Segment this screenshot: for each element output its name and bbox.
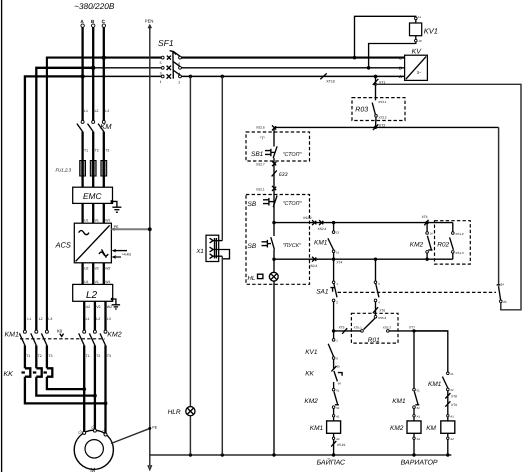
svg-text:U1: U1 — [84, 280, 89, 284]
svg-text:W2: W2 — [105, 267, 110, 271]
svg-text:SB1: SB1 — [251, 151, 264, 158]
wire bus3 middle segment — [83, 75, 162, 77]
svg-text:KM1: KM1 — [392, 398, 406, 405]
svg-text:HLR: HLR — [168, 409, 181, 416]
wire KM1 to KK (3 wires) — [24, 345, 26, 368]
junction left column / R01 line — [332, 329, 335, 332]
connection mark XT1 — [373, 79, 379, 85]
svg-text:XT3: XT3 — [422, 215, 428, 219]
svg-text:L2: L2 — [96, 317, 100, 321]
junction phase B / bus2 — [91, 66, 95, 70]
svg-text:XS5.3: XS5.3 — [383, 325, 392, 329]
svg-text:PE: PE — [152, 425, 157, 429]
svg-text:R01: R01 — [368, 337, 380, 344]
svg-text:KM1: KM1 — [5, 332, 20, 339]
thermal relay KK heater 2 — [33, 368, 42, 376]
wire phase B vertical — [92, 27, 94, 120]
svg-text:ACS: ACS — [55, 241, 71, 250]
svg-text:11: 11 — [418, 15, 421, 19]
svg-text:XS2.6: XS2.6 — [256, 126, 265, 130]
svg-text:U1: U1 — [84, 218, 89, 222]
svg-text:XS3.1: XS3.1 — [378, 100, 387, 104]
junction bus3 / X1 column — [221, 75, 225, 79]
wire bus3 right segment to KV — [181, 75, 404, 77]
wire R03 output down to control line — [375, 117, 378, 127]
switch SA1 pole 3 at right edge — [497, 282, 507, 304]
connection marks XS2.2 XS2.4 on rail1 — [303, 216, 327, 231]
wire HLR to bus — [189, 416, 191, 455]
svg-text:КВ: КВ — [57, 329, 62, 334]
svg-text:KV: KV — [412, 48, 423, 55]
auxiliary contact KM1 (NC) interlock — [392, 388, 420, 414]
junction bus2 / KV1 wire — [367, 66, 371, 70]
contactor KM2 pole 1 — [79, 330, 86, 345]
svg-text:KK: KK — [305, 370, 314, 377]
svg-text:M: M — [90, 467, 95, 472]
svg-text:W1: W1 — [105, 218, 110, 222]
junction bus / X1 branch — [221, 453, 224, 456]
svg-text:"СТОП": "СТОП" — [283, 201, 303, 207]
svg-text:XS3.2: XS3.2 — [378, 116, 387, 120]
svg-text:T2: T2 — [95, 149, 99, 153]
svg-text:62: 62 — [336, 406, 340, 410]
wire KK output 1 bend to motor line 3 — [25, 377, 106, 404]
svg-text:KM2: KM2 — [410, 241, 424, 248]
svg-text:SA1: SA1 — [316, 289, 329, 296]
pushbutton SB PUSK (NO) — [248, 237, 302, 250]
svg-text:T1: T1 — [86, 354, 90, 358]
output filter L2 box — [73, 284, 113, 301]
breaker SF1 common trip bar — [170, 51, 176, 79]
svg-text:XS2.1: XS2.1 — [256, 187, 265, 191]
svg-text:10: 10 — [418, 39, 422, 43]
svg-text:3~: 3~ — [417, 70, 422, 75]
contactor KM2 pole 3 — [100, 330, 107, 345]
wire rail1 start circuit y222.6 — [274, 222, 453, 224]
junction bus / HLR branch — [189, 453, 192, 456]
svg-text:T3: T3 — [107, 354, 111, 358]
EMC filter box U1 — [73, 187, 113, 203]
svg-text:~380/220В: ~380/220В — [74, 1, 115, 11]
junction bus / KM1 coil — [332, 453, 335, 456]
wire branch from bus3 down to R03 — [375, 76, 377, 100]
svg-text:633: 633 — [279, 172, 288, 178]
svg-text:KK: KK — [4, 371, 14, 378]
svg-text:22: 22 — [450, 388, 454, 392]
svg-text:EMC: EMC — [83, 191, 102, 201]
connection mark XT5 — [339, 326, 348, 334]
junction rail1 / KM2 aux — [425, 221, 428, 224]
wire KM coil branch from XT7 node — [414, 331, 448, 372]
svg-text:R03: R03 — [355, 107, 368, 114]
junction bus / KM coil — [446, 453, 449, 456]
wire start button to lamp node — [273, 250, 275, 273]
junction rail2 / SA1 pole1 — [332, 258, 335, 261]
svg-text:SB: SB — [248, 201, 257, 208]
wire bus3 (phase A) left segment with bend down — [25, 76, 83, 331]
connection mark XT10 on bus3 — [320, 73, 326, 79]
wire KM to fuses (3 phases) — [81, 132, 83, 188]
pin A2 of KM1 coil — [333, 433, 335, 437]
svg-text:24: 24 — [501, 282, 505, 286]
wire X1 column upper — [221, 76, 223, 240]
connection mark XT3 on rail1 right — [422, 215, 429, 226]
wire EMC to ACS (3 phases) — [81, 203, 83, 223]
fuse FU3 — [101, 161, 107, 177]
svg-text:KM: KM — [426, 425, 436, 432]
junction to right loop — [374, 83, 377, 86]
pushbutton station SB1 dashed box — [246, 132, 310, 161]
svg-text:KV1: KV1 — [305, 349, 318, 356]
wire bus2 (phase B) left segment with bend down — [36, 68, 93, 332]
junction R03 / control line — [374, 126, 377, 129]
contactor coil KM — [426, 417, 455, 433]
svg-text:XS2.4: XS2.4 — [318, 227, 327, 231]
wire number 65 mark — [331, 364, 340, 371]
changeover contact inside R01 — [354, 315, 392, 332]
connection mark X5.19 — [331, 440, 345, 456]
mechanical interlock dashed link KM1-KM2 with KB mark — [20, 338, 105, 340]
pin A2 of KM2 coil — [413, 433, 415, 437]
wire ACS to L2 (3 phases) — [81, 263, 83, 285]
svg-text:L2: L2 — [39, 317, 43, 321]
switch SA1 pole 1 — [332, 259, 338, 331]
junction bus3 / HLR column — [189, 75, 193, 79]
connection mark XT6 — [373, 307, 385, 313]
svg-text:T2: T2 — [96, 354, 100, 358]
svg-text:T1: T1 — [84, 149, 88, 153]
pushbutton SB1 STOP (NC) — [251, 146, 303, 158]
svg-text:PEN: PEN — [145, 19, 154, 24]
svg-text:XT10: XT10 — [326, 80, 334, 84]
wire control supply line y127 — [274, 126, 499, 128]
svg-text:KV1: KV1 — [424, 27, 438, 36]
svg-text:2: 2 — [178, 80, 180, 84]
wire right loop to SA1 pole3 (via right edge) — [376, 84, 522, 309]
auxiliary contact KM2 NC on rail — [410, 223, 433, 260]
contactor KM1 pole 1 — [19, 330, 26, 345]
svg-text:U2: U2 — [86, 305, 91, 309]
svg-text:KM1: KM1 — [314, 239, 328, 246]
breaker SF1 pole 1 (bus1) — [160, 51, 182, 65]
wire PE from ACS to PEN — [111, 228, 149, 230]
wire motor PE to PEN line — [111, 428, 150, 443]
motor M asynchronous — [74, 424, 113, 472]
junction at motor line 3 — [104, 402, 108, 406]
wire bus1 (phase C) left segment with bend down — [47, 58, 161, 332]
connection mark XT2 — [373, 124, 378, 130]
auxiliary contact KM1 seal-in 13-14 — [314, 223, 340, 260]
svg-text:T1: T1 — [26, 354, 30, 358]
svg-text:61: 61 — [417, 388, 421, 392]
contactor coil KM2 — [390, 417, 421, 433]
lamp HL indicator — [248, 272, 279, 282]
pin A2 of KM coil — [447, 433, 449, 437]
remote contact R02 dashed box — [435, 221, 471, 264]
switch contact inside R03 — [372, 100, 387, 119]
svg-text:Х5.19: Х5.19 — [337, 443, 346, 447]
relay KV1 coil — [415, 20, 417, 23]
connection mark XS2.7 — [256, 161, 276, 166]
svg-text:XT9: XT9 — [451, 403, 457, 407]
wire control column from line down into SB1 — [273, 127, 275, 146]
thermal relay contact KK (NC) — [305, 370, 342, 388]
fuse FU1 — [80, 161, 86, 177]
frame border left edge — [1, 0, 3, 472]
svg-text:W1: W1 — [105, 280, 110, 284]
svg-text:T3: T3 — [48, 354, 52, 358]
svg-text:V2: V2 — [95, 267, 99, 271]
svg-text:XT4: XT4 — [336, 260, 342, 264]
svg-text:A1: A1 — [450, 415, 454, 419]
switch contact R02 — [437, 223, 464, 260]
pin 11 of KV1 — [415, 17, 418, 20]
svg-text:XT8: XT8 — [451, 395, 457, 399]
contactor coil KM1 — [310, 417, 341, 433]
thermal relay KK heater 3 — [44, 368, 53, 376]
svg-text:L3: L3 — [107, 317, 111, 321]
junction bus / KM2 coil — [412, 453, 415, 456]
wire KV1 coil top feed from bus1 — [355, 16, 416, 57]
svg-text:L1: L1 — [27, 317, 31, 321]
switch SA1 pole 2 — [374, 259, 380, 315]
wire KV1 coil bottom to bus2 — [369, 42, 416, 68]
lamp HLR indicator — [168, 407, 195, 416]
svg-text:V2: V2 — [96, 305, 100, 309]
svg-text:XS1.2: XS1.2 — [455, 232, 464, 236]
svg-text:ВАРИАТОР: ВАРИАТОР — [401, 459, 438, 466]
svg-text:U2: U2 — [84, 267, 89, 271]
voltage monitor KV box — [405, 55, 428, 80]
wire HLR column upper — [189, 76, 191, 406]
contactor KM pole 1 — [77, 120, 84, 131]
junction bus3 / R03 branch — [374, 75, 378, 79]
wire X1 to bus — [221, 256, 223, 455]
svg-text:XS2.3: XS2.3 — [309, 264, 318, 268]
connection mark XS2.6 at control column top — [256, 125, 276, 130]
pushbutton SB STOP (NC) second — [248, 196, 303, 208]
wire to start node — [273, 207, 275, 236]
remote switch R03 dashed box — [352, 98, 405, 121]
svg-text:25: 25 — [503, 300, 507, 304]
contactor KM pole 3 — [98, 120, 105, 131]
contactor KM1 pole 2 — [31, 330, 38, 345]
mechanical link dashed line of SA1 — [338, 291, 496, 293]
svg-text:SF1: SF1 — [158, 38, 174, 48]
junction rail2 / SA1 pole2 — [374, 258, 377, 261]
wire KM2 coil branch from XT7 — [413, 331, 415, 388]
cable number 633 mark — [272, 170, 288, 178]
analog input arrows of ACS with value label — [112, 249, 132, 259]
contactor KM1 pole 3 — [41, 330, 48, 345]
wire right vertical to SA1 pole3 — [498, 127, 500, 284]
svg-text:HL: HL — [248, 275, 256, 282]
thermal relay KK heater 1 — [22, 368, 31, 376]
junction bus1 / KV1 wire — [353, 56, 357, 60]
svg-text:14: 14 — [336, 250, 340, 254]
svg-text:XS2.2: XS2.2 — [303, 216, 312, 220]
wire SB1 to mark XS2.7 — [273, 158, 275, 170]
pushbutton station dashed box 2 — [246, 195, 310, 285]
wire KM2 outputs down to motor (3 wires) — [83, 345, 85, 432]
connection mark XS2.3 on rail2 — [309, 257, 318, 268]
svg-text:"СТОП": "СТОП" — [283, 152, 303, 158]
svg-text:A1: A1 — [336, 415, 340, 419]
ground symbol at L2 — [111, 298, 120, 309]
pin A1 of KM coil — [447, 415, 449, 417]
junction rail1 / KM1 aux — [332, 221, 335, 224]
svg-text:A2: A2 — [450, 437, 454, 441]
svg-text:XS5.1: XS5.1 — [354, 325, 363, 329]
junction node start rail — [272, 221, 275, 224]
junction phase A / bus3 — [80, 74, 84, 78]
svg-text:XT5: XT5 — [339, 326, 345, 330]
junction bus / HL branch — [272, 453, 275, 456]
svg-text:A1: A1 — [417, 415, 421, 419]
svg-text:БАЙПАС: БАЙПАС — [317, 457, 346, 466]
wire L2 to KM2 (3 phases) — [83, 301, 85, 330]
svg-text:KM1: KM1 — [428, 381, 442, 388]
wire phase A vertical — [81, 27, 83, 120]
pin A1 of KM1 coil — [332, 415, 334, 417]
junction node lamp rail — [272, 258, 275, 261]
svg-text:W2: W2 — [107, 305, 112, 309]
svg-text:A2: A2 — [336, 437, 340, 441]
contactor KM pole 2 — [88, 120, 95, 131]
svg-text:V1: V1 — [95, 280, 99, 284]
svg-text:XS1.3: XS1.3 — [455, 251, 464, 255]
svg-text:65: 65 — [337, 364, 341, 368]
svg-text:SB: SB — [248, 243, 257, 250]
breaker SF1 pole 2 (bus2) — [160, 61, 182, 75]
relay contact KV1 (NO) in KM1 coil branch — [305, 331, 338, 370]
breaker SF1 pole 3 (bus3) — [160, 70, 182, 84]
svg-text:L3: L3 — [48, 317, 52, 321]
connection mark XT9 — [445, 401, 457, 407]
pin A1 of KM2 coil — [413, 415, 415, 417]
junction PE wire / PEN — [148, 227, 152, 231]
svg-text:"ПУСК": "ПУСК" — [283, 243, 302, 249]
svg-text:XS5.2: XS5.2 — [378, 316, 387, 320]
svg-text:13: 13 — [336, 231, 340, 235]
wire rail2 y259.2 — [274, 258, 453, 260]
wire KK output 2 bend to motor line 2 — [36, 377, 95, 396]
auxiliary contact KM2 (NC) interlock — [304, 388, 339, 414]
svg-text:R02: R02 — [437, 241, 449, 248]
svg-text:L2: L2 — [86, 290, 98, 301]
svg-text:T3: T3 — [105, 149, 109, 153]
svg-text:C: C — [399, 55, 402, 60]
wire lamp HL down to bottom bus — [273, 281, 275, 455]
frequency converter U2 ACS box — [74, 223, 111, 263]
svg-text:XT6: XT6 — [379, 308, 385, 312]
auxiliary contact KM1 (NO) for KM coil — [428, 372, 454, 414]
wire PEN vertical — [149, 28, 151, 456]
connector X1 — [195, 235, 229, 261]
svg-text:=4,4Ω: =4,4Ω — [122, 253, 132, 257]
wire bus1 right segment to KV — [181, 57, 404, 59]
switch SA1 label and handle — [316, 288, 335, 296]
junction at motor line 2 — [93, 394, 97, 398]
svg-text:L3: L3 — [105, 109, 109, 113]
connection mark XT8 — [445, 393, 457, 399]
svg-text:FU1,2,3: FU1,2,3 — [56, 168, 72, 173]
wire phase C vertical — [103, 27, 105, 120]
svg-text:5: 5 — [160, 61, 162, 65]
svg-text:KM2: KM2 — [304, 398, 318, 405]
svg-text:XT7: XT7 — [409, 326, 415, 330]
junction rail2 / KM2 aux — [425, 258, 428, 261]
wire bus2 right segment to KV — [181, 67, 404, 69]
pin 10 of KV1 — [415, 36, 417, 40]
svg-text:A2: A2 — [417, 437, 421, 441]
svg-text:KM2: KM2 — [107, 332, 122, 339]
svg-text:14: 14 — [430, 232, 434, 236]
svg-text:T2: T2 — [38, 354, 42, 358]
wire to stop button SB — [273, 170, 275, 208]
svg-text:X1: X1 — [195, 248, 203, 255]
svg-text:V1: V1 — [95, 218, 99, 222]
wire bottom neutral bus — [150, 454, 452, 456]
svg-text:L2: L2 — [95, 109, 99, 113]
svg-text:L1: L1 — [86, 317, 90, 321]
contactor KM2 pole 2 — [89, 330, 96, 345]
junction at motor line 1 — [82, 387, 86, 391]
ground symbol at EMC — [111, 200, 122, 212]
connection mark XS2.1 — [256, 186, 276, 192]
junction XT7 node — [412, 329, 415, 332]
relay contact R01 dashed box — [351, 313, 398, 343]
svg-text:61: 61 — [336, 388, 340, 392]
wire KK output 3 bend to motor line 1 — [47, 377, 84, 389]
svg-text:3: 3 — [160, 71, 162, 75]
svg-text:KM1: KM1 — [310, 425, 324, 432]
svg-text:"Т": "Т" — [260, 135, 266, 140]
junction phase C / bus1 — [102, 55, 106, 59]
svg-text:A: A — [399, 74, 402, 79]
svg-text:21: 21 — [450, 372, 454, 376]
svg-text:KM2: KM2 — [390, 425, 404, 432]
svg-text:XS2.7: XS2.7 — [256, 163, 265, 167]
svg-text:62: 62 — [417, 406, 421, 410]
svg-text:1: 1 — [160, 80, 162, 84]
wire bus2 middle segment — [93, 67, 161, 69]
fuse FU2 — [90, 161, 96, 177]
svg-text:96: 96 — [338, 381, 342, 385]
ground arrow below PEN at bus — [148, 455, 152, 470]
wire R01 row line — [334, 330, 361, 332]
svg-text:B: B — [399, 66, 402, 71]
svg-text:L1: L1 — [84, 109, 88, 113]
